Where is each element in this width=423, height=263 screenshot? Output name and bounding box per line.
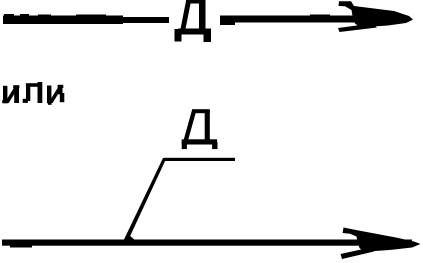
label Д (top line) [175, 0, 212, 42]
letter и (2nd) [47, 86, 51, 104]
leader diagonal line [124, 158, 167, 240]
wire bottom arrow shaft [2, 240, 412, 248]
label Д (bottom, above shelf) [182, 109, 218, 149]
arrowhead (top arrow) [338, 1, 413, 32]
letter л [26, 83, 39, 87]
wire top arrow left segment [3, 14, 169, 24]
letter и (1st) [3, 86, 7, 103]
text "или" (drawn as strokes) [2, 82, 64, 105]
wire top arrow right segment [220, 15, 357, 26]
leader shelf line [164, 158, 235, 161]
arrowhead (bottom arrow) [341, 228, 421, 260]
